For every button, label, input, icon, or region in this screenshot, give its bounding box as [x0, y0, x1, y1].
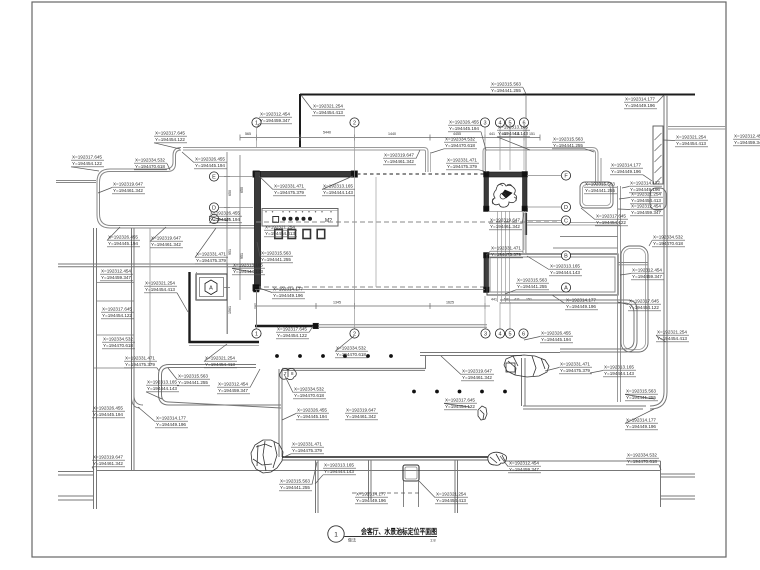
- grid line x=497.5: [497, 211, 499, 302]
- label left mid label: [232, 263, 265, 276]
- wire: vertical pair x=279: [278, 369, 280, 457]
- grid bubble A (hex): [205, 280, 217, 295]
- label door gap label 1: [489, 213, 524, 230]
- fixture: floor box 4: [317, 230, 325, 239]
- label left path label 2: [146, 380, 179, 399]
- wire: vertical pair x=315.5: [315, 460, 317, 513]
- wire: lower path horizontal pair y=406: [523, 405, 646, 407]
- svg-text:Y=194441.255: Y=194441.255: [261, 257, 291, 263]
- svg-text:D: D: [212, 205, 216, 211]
- wire: double y=474 right: [660, 473, 695, 475]
- label right cluster 2b: [618, 204, 663, 217]
- svg-text:X=192315.563: X=192315.563: [491, 82, 521, 88]
- wire: verticals near planter A: [196, 272, 198, 300]
- svg-text:Y=194459.347: Y=194459.347: [101, 275, 131, 281]
- wire: terrace edge thick pair y=456.5: [282, 456, 488, 458]
- svg-text:3: 3: [484, 331, 487, 337]
- svg-text:X=192312.454: X=192312.454: [632, 268, 662, 274]
- wire: entrance left return: [424, 148, 428, 173]
- wire: steps right y=236.5: [560, 236, 618, 238]
- rock 3: [504, 355, 549, 377]
- svg-text:X=192334.532: X=192334.532: [627, 453, 657, 459]
- svg-text:X=192326.455: X=192326.455: [449, 120, 479, 126]
- label left column label 1: [100, 269, 133, 282]
- svg-text:X=192334.532: X=192334.532: [135, 158, 165, 164]
- wire: terrace pair y=368.4: [282, 367, 425, 369]
- label pond label 3: [182, 152, 227, 169]
- label label road jog: [154, 131, 187, 149]
- svg-text:X=192315.563: X=192315.563: [585, 182, 615, 188]
- svg-text:Y=194444.143: Y=194444.143: [323, 190, 353, 196]
- wire: column separator y=368: [94, 367, 134, 369]
- label dashed label: [355, 492, 388, 505]
- fixture: counter dot 2: [289, 217, 293, 221]
- svg-text:1345: 1345: [333, 301, 341, 305]
- grid bubble 3 top: [480, 118, 489, 127]
- label right cluster 2: [619, 192, 663, 205]
- wire: road right jog down: [592, 148, 598, 185]
- svg-text:X=192317.645: X=192317.645: [445, 398, 475, 404]
- svg-text:X=192313.165: X=192313.165: [324, 463, 354, 469]
- svg-text:X=192314.177: X=192314.177: [156, 416, 186, 422]
- grid bubble 3 bottom: [481, 329, 490, 338]
- svg-text:Y=194444.143: Y=194444.143: [233, 269, 263, 275]
- node at (255,289): [254, 287, 260, 293]
- dot row2 #5: [503, 390, 507, 394]
- svg-text:1: 1: [334, 532, 338, 539]
- svg-text:Y=194441.255: Y=194441.255: [626, 395, 656, 401]
- fixture: floor box 3: [303, 230, 311, 239]
- fixture: floor box 2: [288, 230, 296, 239]
- svg-text:Y=194445.194: Y=194445.194: [195, 163, 225, 169]
- wire: door threshold y=211.5: [488, 211, 524, 213]
- svg-text:E: E: [212, 174, 216, 180]
- svg-text:X=192326.455: X=192326.455: [93, 406, 123, 412]
- svg-text:会客厅、水景池标定位平面图: 会客厅、水景池标定位平面图: [361, 527, 437, 536]
- svg-text:1440: 1440: [388, 132, 396, 136]
- svg-text:Y=194444.143: Y=194444.143: [324, 469, 354, 475]
- svg-text:Y=194461.342: Y=194461.342: [346, 414, 376, 420]
- wire: long horizontal y=470: [97, 470, 660, 472]
- svg-text:Y=194454.122: Y=194454.122: [596, 220, 626, 226]
- plant symbol in room: [492, 183, 516, 207]
- wall: lower door-side hatched segment: [484, 253, 489, 292]
- svg-text:Y=194461.342: Y=194461.342: [113, 188, 143, 194]
- label hall inner label: [264, 225, 297, 238]
- label left column label 2: [101, 307, 134, 320]
- grid bubble 4 bottom: [495, 329, 504, 338]
- svg-text:X=192331.471: X=192331.471: [196, 252, 226, 258]
- label label beyond border: [733, 134, 760, 147]
- wire: stub line into pond: [56, 180, 96, 182]
- wire: bubble stems left: [219, 176, 253, 178]
- svg-text:X=192334.532: X=192334.532: [103, 337, 133, 343]
- svg-text:Y=194461.342: Y=194461.342: [490, 224, 520, 230]
- wire: hall inner vertical x=376: [375, 177, 377, 287]
- wire: paved area top pair y=300: [500, 300, 637, 352]
- svg-text:X=192326.455: X=192326.455: [108, 235, 138, 241]
- svg-text:1:8: 1:8: [430, 538, 436, 543]
- ramp: hatched rectangle: [653, 126, 663, 184]
- grid bubble 5 bottom: [505, 329, 514, 338]
- svg-text:X=192334.532: X=192334.532: [294, 387, 324, 393]
- svg-text:X=192321.254: X=192321.254: [631, 192, 661, 198]
- svg-text:X=192331.471: X=192331.471: [125, 356, 155, 362]
- svg-text:Y=194470.618: Y=194470.618: [336, 352, 366, 358]
- planter: tall rounded rect: [621, 246, 648, 352]
- label wide label b: [345, 408, 378, 421]
- svg-text:X=192312.454: X=192312.454: [509, 461, 539, 467]
- label label below road: [383, 150, 420, 165]
- fixture: counter dot 4: [302, 217, 306, 221]
- svg-text:X=192319.647: X=192319.647: [151, 236, 181, 242]
- label label above grid1: [257, 112, 292, 128]
- dim vertical x=227: [226, 152, 228, 334]
- wire: vertical pair x=521.5 room to pool: [522, 211, 524, 254]
- planter: small square bottom: [403, 465, 419, 481]
- grid bubble 2 top: [350, 118, 359, 127]
- svg-text:X=192312.454: X=192312.454: [631, 204, 661, 210]
- svg-text:Y=194445.194: Y=194445.194: [297, 414, 327, 420]
- grid bubble D left: [209, 203, 218, 212]
- grid bubble C right: [561, 216, 570, 225]
- svg-text:X=192334.532: X=192334.532: [445, 137, 475, 143]
- rock 3 box detail: [506, 363, 515, 372]
- svg-text:X=192326.455: X=192326.455: [210, 211, 240, 217]
- label left path label 1: [124, 356, 159, 371]
- wire: road edge right segment: [487, 147, 592, 149]
- label hall wall label R: [322, 176, 355, 196]
- label path corner label 1: [625, 389, 658, 402]
- wire: arc branch to y=405: [134, 396, 143, 405]
- svg-text:Y=194461.342: Y=194461.342: [462, 375, 492, 381]
- svg-text:X=192317.645: X=192317.645: [102, 307, 132, 313]
- wire: thin line under thick wall y=345.5: [189, 345, 259, 347]
- svg-text:X=192321.254: X=192321.254: [265, 225, 295, 231]
- wire: steps right y=248: [553, 247, 618, 249]
- svg-text:X=192314.177: X=192314.177: [356, 492, 386, 498]
- svg-text:X=192317.645: X=192317.645: [629, 299, 659, 305]
- label hall label bottom: [259, 287, 305, 300]
- svg-text:Y=194454.122: Y=194454.122: [155, 137, 185, 143]
- wire: double line right of node y=325: [318, 324, 487, 326]
- label left path label 3: [168, 368, 210, 386]
- svg-text:X=192314.177: X=192314.177: [625, 97, 655, 103]
- grid line x=524: [523, 127, 525, 170]
- label path label right: [656, 330, 689, 343]
- dot row1 #2: [298, 354, 302, 358]
- svg-text:Y=194449.196: Y=194449.196: [625, 103, 655, 109]
- dot row1 #3: [321, 354, 325, 358]
- svg-text:441: 441: [491, 298, 497, 302]
- svg-text:X=192319.647: X=192319.647: [113, 182, 143, 188]
- svg-text:951: 951: [240, 253, 244, 259]
- planter: square with grid A: [196, 274, 227, 300]
- wire: vertical pair x=368.5: [368, 460, 370, 499]
- svg-text:Y=194445.194: Y=194445.194: [541, 337, 571, 343]
- wire: pool top double right part: [487, 253, 618, 255]
- wire: path upper horizontal y=364.5: [159, 365, 282, 406]
- label left path label 4: [138, 407, 188, 428]
- svg-text:X=192313.165: X=192313.165: [147, 380, 177, 386]
- label label cluster entr 1: [431, 137, 477, 153]
- wall: hall top hatched band: [253, 172, 357, 178]
- svg-text:Y=194454.122: Y=194454.122: [445, 404, 475, 410]
- svg-text:Y=194454.122: Y=194454.122: [72, 161, 102, 167]
- door leaf thick stroke x=526: [525, 213, 527, 235]
- grid bubble B right: [561, 251, 570, 260]
- node lower wall top: [484, 253, 490, 259]
- svg-text:X=192321.254: X=192321.254: [676, 135, 706, 141]
- wire: steps right y=262.5: [618, 262, 648, 264]
- svg-text:Y=194444.143: Y=194444.143: [604, 371, 634, 377]
- svg-text:X=192317.645: X=192317.645: [72, 155, 102, 161]
- svg-text:X=192331.471: X=192331.471: [491, 246, 521, 252]
- grid line x=256.5: [256, 128, 258, 147]
- svg-text:Y=194444.143: Y=194444.143: [550, 270, 580, 276]
- svg-text:Y=194454.413: Y=194454.413: [657, 336, 687, 342]
- grid bubble E left: [209, 172, 218, 181]
- label bottom label 2: [279, 462, 317, 491]
- svg-text:X=192334.532: X=192334.532: [336, 346, 366, 352]
- grid bubble 1 bottom: [252, 329, 261, 338]
- grid line x=430.5: [430, 152, 432, 172]
- label path corner label 2: [625, 409, 658, 430]
- label planter label right 1: [620, 268, 664, 281]
- svg-text:Y=194459.347: Y=194459.347: [509, 467, 539, 473]
- label corner label br: [626, 453, 661, 470]
- dot row2 #3: [458, 390, 462, 394]
- wire: vertical pair x=521.5 terrace: [521, 358, 523, 406]
- svg-text:X=192331.471: X=192331.471: [560, 362, 590, 368]
- svg-text:Y=194461.342: Y=194461.342: [384, 159, 414, 165]
- svg-text:Y=194441.255: Y=194441.255: [280, 485, 310, 491]
- label label at thick corner: [301, 95, 345, 116]
- wall: thick horizontal y=326: [255, 325, 316, 327]
- dot row1 #5: [366, 354, 370, 358]
- label pond bottom label 2: [150, 227, 183, 248]
- svg-text:Y=194459.347: Y=194459.347: [632, 274, 662, 280]
- wire: site boundary top thick line: [300, 94, 695, 96]
- wire: road edge top-right segment: [668, 126, 726, 128]
- node room right-bottom: [522, 206, 528, 212]
- wire: label column separators: [96, 282, 134, 284]
- grid line x=510: [509, 302, 511, 329]
- svg-text:X=192321.254: X=192321.254: [205, 356, 235, 362]
- label pool label 3: [552, 295, 598, 310]
- svg-text:X=192319.647: X=192319.647: [93, 455, 123, 461]
- svg-text:X=192331.471: X=192331.471: [447, 158, 477, 164]
- label label road right: [497, 125, 530, 150]
- svg-text:X=192314.177: X=192314.177: [611, 163, 641, 169]
- svg-text:Y=194470.618: Y=194470.618: [627, 459, 657, 465]
- label right cluster 3: [581, 208, 628, 226]
- svg-text:X=192326.455: X=192326.455: [195, 157, 225, 163]
- dot row1 #4: [343, 354, 347, 358]
- svg-text:1: 1: [255, 331, 258, 337]
- wall: room top hatched: [484, 172, 527, 177]
- svg-text:650: 650: [240, 187, 244, 193]
- svg-text:Y=194454.413: Y=194454.413: [265, 231, 295, 237]
- svg-text:Y=194454.413: Y=194454.413: [676, 141, 706, 147]
- svg-text:X=192321.254: X=192321.254: [145, 281, 175, 287]
- svg-text:X=192312.454: X=192312.454: [101, 269, 131, 275]
- wire: dashed line y=493: [352, 492, 419, 494]
- wire: verticals below square: [403, 481, 405, 507]
- grid bubble 2 bottom: [350, 329, 359, 338]
- label pond label 1: [71, 155, 104, 171]
- svg-text:X=192319.647: X=192319.647: [462, 369, 492, 375]
- svg-text:做法: 做法: [348, 537, 356, 543]
- label pond label 2: [134, 158, 170, 171]
- svg-text:X=192331.471: X=192331.471: [292, 442, 322, 448]
- label top label near x=526: [490, 82, 526, 95]
- grid bubble F right: [561, 171, 570, 180]
- svg-text:Y=194459.347: Y=194459.347: [631, 210, 661, 216]
- grid line x=524: [523, 211, 525, 250]
- svg-text:Y=194449.196: Y=194449.196: [273, 293, 303, 299]
- svg-text:951: 951: [228, 249, 232, 255]
- grid line x=501.5: [501, 211, 503, 302]
- wire: vertical pair x=93.5: [93, 228, 95, 509]
- svg-text:B: B: [564, 253, 568, 259]
- rock 1 large: [251, 440, 283, 473]
- label mid label x=204: [204, 344, 237, 368]
- svg-text:3: 3: [483, 120, 486, 126]
- dot row1 #1: [275, 354, 279, 358]
- svg-text:5440: 5440: [323, 131, 331, 135]
- fixture: counter open square: [273, 217, 279, 223]
- svg-text:Y=194454.413: Y=194454.413: [145, 287, 175, 293]
- wire: single line y=461 right of rock: [506, 460, 661, 462]
- wire: vertical x=150: [149, 228, 151, 366]
- label pond bottom label 3: [195, 228, 228, 264]
- wire: long horizontal y=264: [58, 263, 258, 265]
- grid bubble 5 top: [505, 118, 514, 127]
- svg-text:Y=194459.347: Y=194459.347: [734, 140, 760, 146]
- rock 2b: [488, 452, 507, 465]
- svg-text:Y=194441.255: Y=194441.255: [517, 284, 547, 290]
- wire: entrance right return: [483, 148, 487, 173]
- svg-text:X=192317.645: X=192317.645: [277, 327, 307, 333]
- grid line x=505.5: [505, 211, 507, 302]
- dot row2 #1: [412, 390, 416, 394]
- label terrace label 3: [590, 365, 636, 378]
- fixture: counter dot 3: [295, 217, 299, 221]
- title bubble: [328, 526, 344, 542]
- svg-text:Y=194475.379: Y=194475.379: [125, 362, 155, 368]
- grid line x=256.5: [256, 291, 258, 329]
- label label cluster entr 2: [448, 120, 486, 150]
- grid line x=509.5: [509, 211, 511, 302]
- grid bubble 4 top: [495, 118, 504, 127]
- grid line x=485: [484, 296, 486, 329]
- svg-text:1561: 1561: [228, 306, 232, 314]
- svg-text:X=192315.563: X=192315.563: [280, 479, 310, 485]
- label label ramp left: [610, 163, 652, 181]
- label right planter label: [649, 235, 685, 248]
- label planter label right 2: [618, 299, 661, 312]
- svg-text:C: C: [564, 218, 568, 224]
- label label cluster entr 3: [446, 158, 487, 172]
- planter: rounded rect top: [580, 182, 613, 208]
- svg-text:X=192314.177: X=192314.177: [626, 418, 656, 424]
- svg-text:X=192313.165: X=192313.165: [550, 264, 580, 270]
- pond outline outer: [97, 148, 258, 229]
- svg-text:Y=194454.413: Y=194454.413: [436, 498, 466, 504]
- wire: road jog verticals x=598: [597, 158, 599, 184]
- svg-text:Y=194470.618: Y=194470.618: [445, 143, 475, 149]
- grid line x=485: [484, 127, 486, 170]
- label grid2 bottom label: [335, 336, 368, 358]
- wire: vertical line grid at x=526: [525, 95, 527, 254]
- pool inner rect: [490, 257, 615, 292]
- svg-text:M?: M?: [325, 218, 332, 224]
- wire: gray pair y=222.5 right: [527, 222, 621, 224]
- grid bubble C left: [209, 214, 218, 223]
- svg-text:X=192321.254: X=192321.254: [436, 492, 466, 498]
- svg-text:X=192331.471: X=192331.471: [274, 184, 304, 190]
- node at end of y=326 wall: [313, 323, 319, 329]
- svg-text:Y=194454.413: Y=194454.413: [631, 198, 661, 204]
- label wide label a: [282, 408, 329, 421]
- svg-text:X=192313.165: X=192313.165: [323, 184, 353, 190]
- svg-text:Y=194454.413: Y=194454.413: [313, 110, 343, 116]
- label left column label 5: [92, 455, 125, 470]
- fixture: counter dot 1: [282, 217, 286, 221]
- planter: small shape right: [650, 188, 666, 210]
- svg-text:Y=194449.196: Y=194449.196: [156, 422, 186, 428]
- svg-text:Y=194449.196: Y=194449.196: [566, 304, 596, 310]
- dim vertical x=240: [239, 155, 241, 300]
- grid line x=500: [499, 127, 501, 170]
- dot row2 #2: [435, 390, 439, 394]
- wire: vertical x=660.5: [660, 461, 662, 507]
- svg-text:Y=194445.194: Y=194445.194: [210, 217, 240, 223]
- wall: hall left hatched band: [255, 172, 261, 289]
- svg-text:Y=194454.122: Y=194454.122: [102, 313, 132, 319]
- label pond label 4: [98, 182, 145, 195]
- svg-text:Y=194454.122: Y=194454.122: [629, 305, 659, 311]
- label label ramp right: [663, 135, 708, 148]
- svg-text:6: 6: [522, 331, 525, 337]
- svg-text:650: 650: [228, 190, 232, 196]
- svg-text:Y=194441.255: Y=194441.255: [491, 88, 521, 94]
- svg-text:Y=194475.379: Y=194475.379: [292, 448, 322, 454]
- grid bubble 6 bottom: [519, 329, 528, 338]
- svg-text:Y=194445.194: Y=194445.194: [449, 126, 479, 132]
- wall: thick vertical x=189.5: [188, 272, 190, 343]
- svg-text:2: 2: [353, 120, 356, 126]
- label pond bottom label 1: [107, 227, 140, 247]
- node at grid 1 top wall: [253, 171, 260, 178]
- svg-text:151: 151: [529, 132, 535, 136]
- label bottom label 1: [315, 463, 356, 484]
- svg-text:441: 441: [489, 132, 495, 136]
- pool outer rect: [487, 254, 618, 295]
- wall: room right hatched: [523, 172, 528, 211]
- label planter label: [584, 182, 617, 195]
- svg-text:Y=194470.618: Y=194470.618: [653, 241, 683, 247]
- label pool corner label: [144, 281, 188, 312]
- svg-text:X=192312.454: X=192312.454: [734, 134, 760, 140]
- svg-text:Y=194470.618: Y=194470.618: [103, 343, 133, 349]
- wire: path inner edge vertical pair x=617.5: [617, 186, 619, 402]
- svg-text:Y=194475.379: Y=194475.379: [274, 190, 304, 196]
- wire: hall bottom dashed y=287: [256, 286, 487, 288]
- grid line x=510: [509, 127, 511, 170]
- label left column label 4: [92, 406, 125, 419]
